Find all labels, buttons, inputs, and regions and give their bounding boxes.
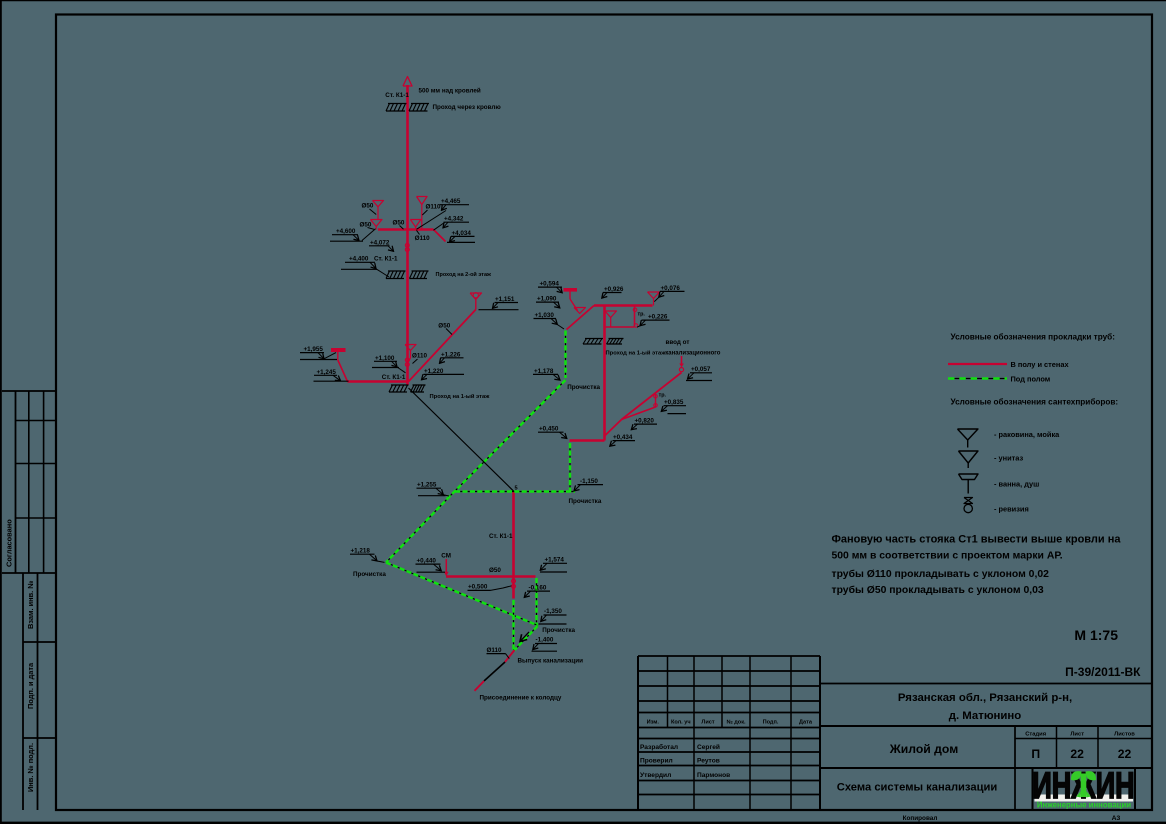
svg-text:Реутов: Реутов (697, 758, 720, 765)
svg-text:Сергей: Сергей (697, 743, 720, 751)
svg-text:В полу и стенах: В полу и стенах (1011, 360, 1070, 369)
svg-text:22: 22 (1118, 747, 1132, 761)
svg-text:Проход через кровлю: Проход через кровлю (433, 104, 502, 111)
svg-text:д. Матюнино: д. Матюнино (949, 710, 1022, 722)
svg-text:Стадия: Стадия (1025, 732, 1046, 738)
svg-text:Ст. К1-1: Ст. К1-1 (385, 92, 409, 99)
svg-text:Ø110: Ø110 (426, 204, 442, 211)
svg-text:Проверил: Проверил (640, 758, 673, 765)
svg-text:Лист: Лист (1070, 732, 1084, 738)
svg-text:Согласовано: Согласовано (4, 519, 13, 567)
svg-text:+4,400: +4,400 (349, 256, 369, 263)
svg-text:Копировал: Копировал (903, 815, 938, 822)
svg-text:ввод от: ввод от (666, 339, 690, 346)
svg-text:Ø110: Ø110 (412, 353, 428, 360)
svg-text:- ванна, душ: - ванна, душ (994, 480, 1039, 489)
svg-text:5: 5 (515, 486, 518, 492)
svg-text:Листов: Листов (1114, 732, 1135, 738)
svg-text:А3: А3 (1112, 815, 1121, 822)
svg-text:22: 22 (1070, 747, 1084, 761)
svg-text:Пармонов: Пармонов (697, 772, 730, 779)
svg-text:Прочистка: Прочистка (353, 571, 386, 578)
svg-text:Условные обозначения сантехпри: Условные обозначения сантехприборов: (951, 397, 1119, 407)
svg-text:Ст. К1-1: Ст. К1-1 (382, 374, 406, 381)
svg-text:Инженерные инновации: Инженерные инновации (1037, 801, 1131, 810)
svg-text:500 мм в соответствии с проект: 500 мм в соответствии с проектом марки А… (832, 551, 1063, 562)
svg-text:Схема системы канализации: Схема системы канализации (837, 782, 998, 794)
svg-text:Ø50: Ø50 (489, 567, 501, 574)
svg-text:-1,150: -1,150 (580, 478, 598, 485)
svg-text:Лист: Лист (701, 720, 714, 726)
svg-text:Под полом: Под полом (1011, 375, 1051, 384)
svg-text:М 1:75: М 1:75 (1074, 627, 1118, 643)
svg-text:трубы Ø110 прокладывать с укло: трубы Ø110 прокладывать с уклоном 0,02 (832, 568, 1050, 580)
svg-text:Утвердил: Утвердил (640, 772, 671, 779)
svg-text:+0,057: +0,057 (691, 366, 711, 373)
svg-text:+0,500: +0,500 (468, 584, 488, 591)
svg-text:- раковина, мойка: - раковина, мойка (994, 430, 1060, 439)
svg-text:-1,350: -1,350 (544, 608, 562, 615)
svg-text:Разработал: Разработал (640, 743, 678, 751)
svg-text:- ревизия: - ревизия (994, 505, 1029, 514)
svg-text:-1,400: -1,400 (536, 637, 554, 644)
svg-text:Присоединение к колодцу: Присоединение к колодцу (480, 695, 562, 702)
svg-text:Проход на 1-ый этаж: Проход на 1-ый этаж (430, 393, 491, 400)
svg-text:+0,440: +0,440 (417, 558, 437, 565)
svg-text:П: П (1031, 747, 1040, 761)
svg-text:тр.: тр. (638, 312, 646, 318)
svg-text:+1,218: +1,218 (351, 548, 371, 555)
svg-text:+1,955: +1,955 (304, 346, 324, 353)
svg-text:Ст. К1-1: Ст. К1-1 (374, 256, 398, 263)
svg-text:+4,465: +4,465 (441, 198, 461, 205)
svg-text:+4,600: +4,600 (336, 228, 356, 235)
svg-text:Инв. № подл.: Инв. № подл. (26, 743, 35, 792)
svg-text:Ст. К1-1: Ст. К1-1 (489, 533, 513, 540)
svg-text:Проход на 2-ой этаж: Проход на 2-ой этаж (436, 271, 492, 278)
svg-text:П-39/2011-ВК: П-39/2011-ВК (1065, 665, 1141, 679)
svg-text:+1,220: +1,220 (424, 368, 444, 375)
svg-text:Прочистка: Прочистка (567, 384, 600, 391)
svg-text:Выпуск канализации: Выпуск канализации (518, 658, 584, 665)
svg-text:+4,034: +4,034 (452, 230, 472, 237)
svg-text:500 мм над кровлей: 500 мм над кровлей (419, 87, 481, 95)
svg-text:Прочистка: Прочистка (569, 498, 602, 505)
svg-text:Ø50: Ø50 (360, 222, 372, 229)
svg-text:+1,574: +1,574 (545, 557, 565, 564)
svg-text:Изм.: Изм. (647, 720, 660, 726)
svg-text:Ø50: Ø50 (362, 203, 374, 210)
svg-text:Взам. инв. №: Взам. инв. № (26, 581, 35, 630)
svg-text:Кол. уч: Кол. уч (671, 720, 691, 726)
svg-text:СМ: СМ (441, 553, 451, 560)
svg-text:Жилой дом: Жилой дом (889, 742, 958, 756)
svg-text:Подп.: Подп. (763, 720, 779, 726)
svg-text:трубы Ø50 прокладывать с уклон: трубы Ø50 прокладывать с уклоном 0,03 (832, 584, 1044, 596)
svg-text:Фановую часть стояка Ст1 вывес: Фановую часть стояка Ст1 вывести выше кр… (832, 534, 1122, 546)
svg-text:тр.: тр. (659, 393, 667, 399)
svg-text:Ø110: Ø110 (415, 235, 431, 242)
svg-text:Ø50: Ø50 (393, 220, 405, 227)
svg-text:Ø110: Ø110 (487, 647, 503, 654)
svg-text:Прочистка: Прочистка (542, 627, 575, 634)
svg-text:- унитаз: - унитаз (994, 454, 1023, 463)
svg-text:Ø50: Ø50 (438, 323, 450, 330)
svg-text:Условные обозначения прокладки: Условные обозначения прокладки труб: (951, 332, 1115, 342)
svg-text:канализационного: канализационного (665, 351, 720, 357)
svg-text:Подп. и дата: Подп. и дата (26, 662, 35, 709)
svg-text:Дата: Дата (799, 720, 813, 726)
svg-text:Проход на 1-ый этаж: Проход на 1-ый этаж (606, 350, 667, 357)
svg-text:Рязанская обл., Рязанский р-н,: Рязанская обл., Рязанский р-н, (898, 692, 1072, 704)
svg-text:№ док.: № док. (726, 720, 746, 726)
